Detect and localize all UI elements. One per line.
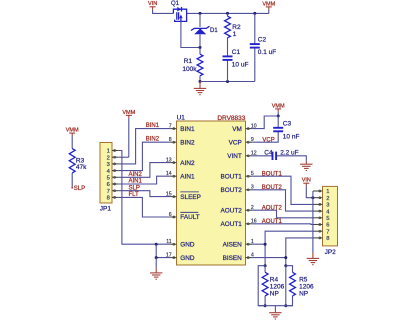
svg-text:NP: NP [270, 291, 279, 298]
svg-text:BIN2: BIN2 [146, 137, 160, 143]
svg-text:1: 1 [233, 31, 237, 38]
svg-text:15: 15 [166, 191, 172, 197]
svg-text:0.1 uF: 0.1 uF [258, 49, 276, 56]
svg-text:NP: NP [299, 291, 308, 298]
svg-text:JP2: JP2 [325, 249, 337, 256]
svg-text:7: 7 [326, 229, 329, 235]
svg-text:BOUT2: BOUT2 [220, 187, 242, 194]
svg-text:AISEN: AISEN [223, 241, 243, 248]
svg-text:2.2 uF: 2.2 uF [280, 149, 298, 156]
svg-text:VM: VM [232, 126, 242, 133]
svg-text:8: 8 [169, 137, 172, 143]
svg-text:10 nF: 10 nF [283, 134, 300, 141]
svg-text:C2: C2 [258, 36, 267, 43]
svg-text:1206: 1206 [299, 284, 314, 291]
svg-text:R4: R4 [270, 277, 279, 284]
svg-text:DRV8833: DRV8833 [217, 115, 245, 122]
svg-text:AIN2: AIN2 [129, 172, 143, 178]
svg-text:JP1: JP1 [100, 205, 112, 212]
svg-text:R5: R5 [299, 277, 308, 284]
svg-text:SLP: SLP [129, 185, 140, 191]
svg-text:6: 6 [169, 212, 172, 218]
svg-text:AIN1: AIN1 [129, 179, 143, 185]
svg-text:5: 5 [326, 216, 329, 222]
svg-text:2: 2 [326, 196, 329, 202]
svg-text:6: 6 [107, 182, 110, 188]
svg-text:1: 1 [107, 149, 110, 155]
svg-text:AIN2: AIN2 [180, 160, 195, 167]
svg-text:1: 1 [326, 189, 329, 195]
svg-text:AOUT1: AOUT1 [262, 219, 283, 225]
svg-text:100k: 100k [182, 66, 197, 73]
svg-text:AIN1: AIN1 [180, 173, 195, 180]
svg-text:8: 8 [107, 196, 110, 202]
svg-text:C4: C4 [264, 149, 273, 156]
svg-text:BISEN: BISEN [223, 255, 243, 262]
svg-text:BOUT1: BOUT1 [262, 172, 283, 178]
svg-text:C1: C1 [232, 49, 241, 56]
svg-text:3: 3 [107, 162, 110, 168]
svg-text:FLT: FLT [129, 192, 140, 198]
svg-text:BIN1: BIN1 [180, 126, 195, 133]
svg-text:VCP: VCP [229, 139, 242, 146]
svg-text:U1: U1 [177, 115, 186, 122]
svg-text:BIN1: BIN1 [146, 123, 160, 129]
svg-text:8: 8 [326, 236, 329, 242]
svg-text:14: 14 [166, 171, 172, 177]
svg-text:BOUT1: BOUT1 [220, 173, 242, 180]
svg-text:AOUT2: AOUT2 [262, 206, 283, 212]
svg-text:C3: C3 [283, 120, 292, 127]
svg-text:11: 11 [166, 239, 171, 245]
svg-text:7: 7 [169, 123, 172, 129]
svg-text:5: 5 [107, 176, 110, 182]
svg-text:13: 13 [166, 157, 172, 163]
svg-text:10 uF: 10 uF [232, 61, 249, 68]
svg-text:1206: 1206 [270, 284, 285, 291]
svg-text:3: 3 [326, 203, 329, 209]
svg-text:BOUT2: BOUT2 [262, 185, 283, 191]
svg-text:GND: GND [180, 255, 195, 262]
svg-text:SLEEP: SLEEP [180, 194, 201, 201]
svg-text:Q1: Q1 [171, 1, 180, 7]
svg-text:BIN2: BIN2 [180, 139, 195, 146]
svg-text:47k: 47k [76, 164, 87, 171]
svg-text:AOUT1: AOUT1 [220, 221, 242, 228]
svg-text:7: 7 [107, 189, 110, 195]
svg-text:R1: R1 [184, 58, 193, 65]
svg-text:6: 6 [326, 223, 329, 229]
svg-text:VCP: VCP [262, 137, 274, 143]
svg-text:GND: GND [180, 241, 195, 248]
svg-text:AOUT2: AOUT2 [220, 207, 242, 214]
svg-text:2: 2 [107, 155, 110, 161]
svg-text:VINT: VINT [227, 153, 242, 160]
svg-text:FAULT: FAULT [180, 214, 200, 221]
svg-text:D1: D1 [210, 28, 218, 34]
svg-text:SLP: SLP [74, 186, 85, 192]
svg-text:17: 17 [166, 252, 172, 258]
